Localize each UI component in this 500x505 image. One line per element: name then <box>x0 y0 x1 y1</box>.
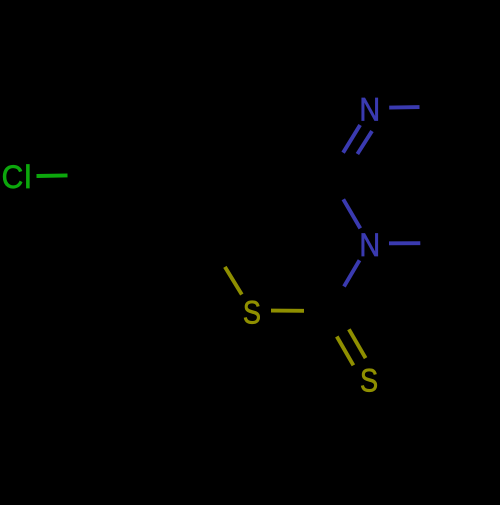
svg-text:N: N <box>359 226 380 263</box>
bond N1-CH3 (blue half, horizontal right) <box>389 105 419 109</box>
bond N3-C2 (blue half, diagonal down-left) <box>344 260 360 286</box>
svg-text:C: C <box>2 159 24 195</box>
bond Cl-C7 (green half) <box>37 173 68 178</box>
bond N3-CH3 (blue half, horizontal right) <box>389 241 420 245</box>
bond N3-C4 (blue half, diagonal up-left) <box>343 199 360 228</box>
double bond C2=S thione, line B (upper-right yellow) <box>349 329 366 358</box>
atom label N1 (imine nitrogen) <box>359 91 380 128</box>
atom label N3 (ring nitrogen) <box>359 226 380 263</box>
double bond C2=S thione, line A (lower-left yellow) <box>337 337 354 366</box>
svg-text:S: S <box>360 363 378 399</box>
svg-text:N: N <box>359 91 380 128</box>
atom label S1 (ring sulfur) <box>243 295 261 331</box>
bond S1-C8a (yellow half, diagonal up-left) <box>225 267 242 295</box>
svg-text:l: l <box>24 159 31 195</box>
bond S1-C2 (yellow half, horizontal right) <box>271 309 304 313</box>
atom label S (thione sulfur) <box>360 363 378 399</box>
double bond C4=N1 inner line (blue half, diagonal) <box>357 131 372 154</box>
svg-text:S: S <box>243 295 261 331</box>
double bond C4=N1 main line (blue half, diagonal) <box>343 125 360 153</box>
atom label Cl <box>2 159 24 195</box>
